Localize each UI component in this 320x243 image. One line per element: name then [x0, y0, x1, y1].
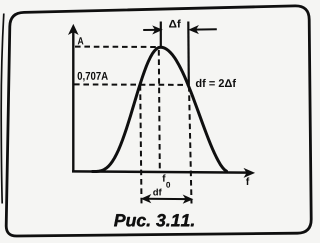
caption Ris. 3.11.: [114, 214, 194, 226]
label df = 2 delta-f: [196, 79, 236, 87]
label f on frequency axis: [246, 177, 249, 185]
label A (peak amplitude): [78, 37, 84, 44]
resonance bell curve: [93, 47, 227, 171]
dashed level line at A: [75, 46, 160, 48]
vertical axis A: [72, 31, 74, 172]
delta-f dimension left leader with right-pointing arrow: [143, 29, 155, 31]
dashed vertical at left -3dB point: [140, 85, 141, 204]
delta-f dimension right leader with left-pointing arrow: [194, 28, 217, 30]
df bandwidth dimension double arrow below axis: [145, 198, 190, 200]
label 0 subscript of f0: [166, 182, 170, 188]
label f of f0 tick: [162, 174, 165, 181]
horizontal axis f: [72, 171, 248, 172]
dashed vertical at f0 below peak: [159, 50, 160, 170]
horizontal axis arrowhead: [245, 169, 254, 177]
dashed vertical at right -3dB point: [189, 86, 192, 204]
vertical axis arrowhead: [69, 25, 77, 34]
solid extension line above peak f0: [160, 22, 162, 48]
label df (bandwidth): [153, 189, 162, 196]
dashed level line at 0,707A: [74, 83, 188, 86]
solid extension line above right -3dB point: [187, 22, 190, 86]
stray scan line at left edge: [1, 14, 4, 204]
label 0,707A: [78, 72, 108, 82]
label delta-f: [169, 20, 181, 28]
